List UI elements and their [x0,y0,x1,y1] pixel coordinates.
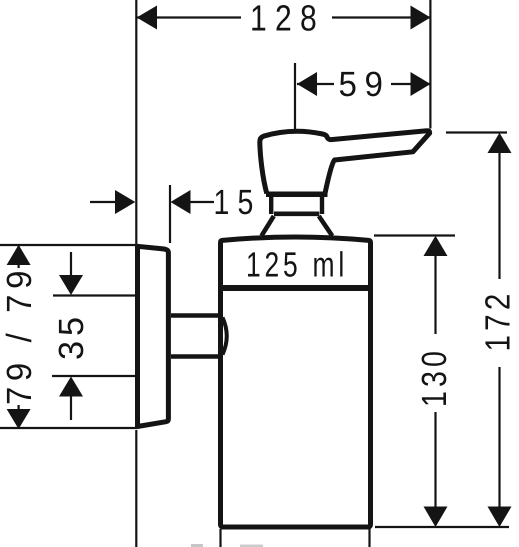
pump flare left [262,216,274,236]
pump flare right [319,216,332,236]
arrow 130 top (up) [424,236,448,256]
collar bottom line [219,285,373,291]
wall plate [138,246,169,426]
arrow 172 bottom (down) [488,507,512,528]
extension line top of 79/79 [0,244,136,246]
holder ring bulge [223,318,227,355]
extension line top of 35 [53,294,136,296]
dimension line 172 [498,152,500,279]
extension line below plate [135,430,137,547]
svg-text:125 ml: 125 ml [246,246,348,285]
svg-text:35: 35 [52,312,91,360]
extension line bottom of 35 [52,375,136,377]
dimension line 130 [434,255,436,334]
svg-text:79 / 79: 79 / 79 [0,265,39,405]
pump head and lever [260,131,430,194]
extension line bottom right shared by 130/172 [375,526,509,528]
extension line below bottle left [219,529,221,547]
dimension line 128 [137,16,241,18]
dimension line 79/79 top segment [18,246,20,268]
arrow 59 right [411,72,431,96]
extension line below bottle right [368,527,370,547]
svg-text:15: 15 [214,183,262,222]
arrow 79/79 top (up) [7,245,31,265]
holder arm top [171,313,219,318]
arrow 59 left [297,72,317,96]
pump neck left [269,197,273,215]
dimension line 79/79 bottom segment [18,405,20,428]
extension line bottom of 79/79 [0,427,138,429]
faint cropped marks bottom [191,544,203,547]
dimension line 15 right tail [189,201,214,203]
arrow 128 right [411,6,431,30]
extension line left of 59 (x=295) [294,63,296,129]
extension line right of 15 (x=170) [169,185,171,243]
dimension line 15 left tail [90,201,116,203]
arrow 79/79 bottom (down) [7,409,31,429]
arrow 15 right (pointing left) [171,190,191,214]
arrow 15 left (pointing right) [115,190,135,214]
arrow 35 bottom (up) [59,377,83,397]
arrow 130 bottom (down) [424,507,448,528]
extension line left of 128 (x=136) top to plate [135,0,137,244]
pump neck right [320,197,324,215]
dimension line 59 [297,83,334,85]
svg-text:130: 130 [415,347,454,407]
bottle body [221,237,371,527]
extension line top of 172 [446,131,507,133]
extension line right of 128/59 (x=430.4) top to lever tip [429,0,431,129]
svg-text:172: 172 [479,290,518,352]
dimension 35 bottom tail [70,395,72,420]
dimension 35 top tail [70,252,72,276]
holder arm bottom [171,354,219,359]
arrow 128 left [137,6,157,30]
arrow 35 top (down) [59,275,83,295]
pump ring upper [266,192,328,198]
svg-text:128: 128 [250,0,325,39]
pump ring lower [274,212,319,217]
extension line top of 130 [374,234,455,236]
svg-text:59: 59 [339,65,391,104]
arrow 172 top (up) [488,133,512,153]
